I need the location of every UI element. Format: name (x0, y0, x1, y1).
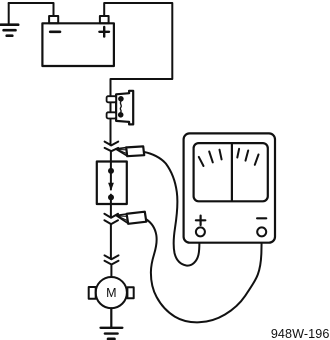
svg-text:948W-196: 948W-196 (271, 327, 330, 340)
internal dot bottom (108, 194, 114, 200)
inline disconnect (chevron pair) node B (104, 214, 118, 224)
motor M1 circle (96, 277, 127, 308)
voltmeter needle (231, 145, 233, 201)
wire ground to battery negative terminal (9, 3, 54, 16)
wire disconnect to motor (110, 265, 112, 277)
voltmeter scale ticks left (199, 150, 222, 166)
connector contact dot 1 (118, 96, 124, 102)
ground G2 (motor ground) (101, 328, 123, 339)
voltmeter minus label (257, 217, 266, 219)
test probe P1 (upper, to meter +) (115, 146, 144, 156)
voltmeter plus label (196, 216, 205, 225)
connector contact dot 2 (118, 112, 124, 118)
battery plus sign (99, 27, 109, 37)
component box (diode assembly) (97, 162, 127, 205)
connector pin 1 (107, 96, 117, 102)
test probe P2 (lower, to meter -) (116, 212, 147, 224)
ground G1 (battery negative ground) (1, 3, 19, 36)
connector pin 2 (107, 112, 117, 118)
voltmeter display window (194, 143, 268, 201)
wire below bottom dot to disconnect B (110, 195, 112, 218)
wire probe P1 to meter + terminal (144, 152, 199, 266)
voltmeter - terminal (257, 227, 266, 236)
wire probe P2 to meter - terminal (147, 220, 262, 323)
internal dot top (108, 168, 114, 174)
wire battery positive to connector (104, 3, 172, 145)
battery positive terminal post (100, 16, 109, 23)
voltmeter U1 outer case (184, 133, 275, 242)
wire motor to ground G2 (110, 308, 112, 328)
connector C1 body (116, 91, 133, 125)
inline disconnect (chevron pair) at motor (105, 255, 119, 264)
battery minus sign (50, 30, 60, 33)
inline disconnect (chevron pair) node A (105, 142, 119, 152)
motor right brush tab (127, 287, 133, 298)
wire disconnect B to motor disconnect (110, 224, 112, 259)
voltmeter + terminal (196, 227, 205, 236)
connector internal squiggle (120, 102, 121, 112)
wire disconnect A through component box to arrow (110, 151, 112, 189)
motor left brush tab (89, 287, 96, 299)
battery negative terminal post (49, 16, 58, 23)
voltmeter scale ticks right (237, 149, 258, 165)
battery B1 (42, 23, 114, 66)
internal arrow (108, 183, 114, 191)
svg-text:M: M (106, 286, 116, 300)
